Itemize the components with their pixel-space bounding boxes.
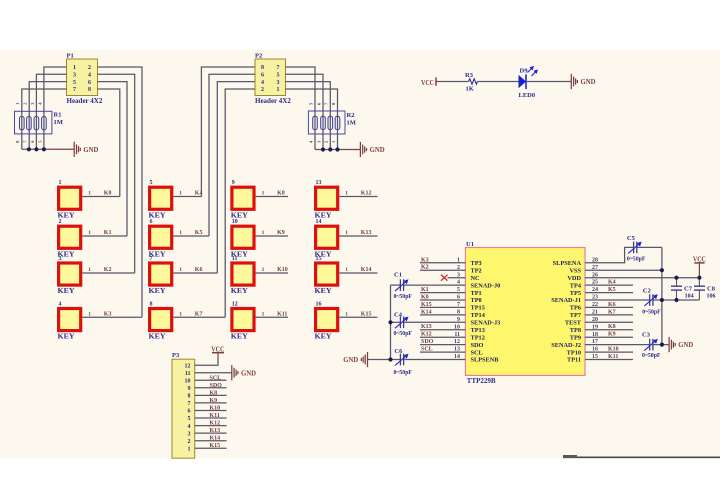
svg-text:C8: C8 <box>707 285 716 292</box>
wire key 4 net K3 <box>82 316 142 318</box>
svg-text:K14: K14 <box>210 436 221 442</box>
wire P1 pin2 to K3 bus <box>98 67 143 317</box>
svg-text:K6: K6 <box>195 267 203 273</box>
ground GND (LED) <box>571 74 577 89</box>
svg-text:TP10: TP10 <box>567 349 581 356</box>
power port VCC (U1) <box>693 254 706 277</box>
svg-text:1: 1 <box>188 446 191 452</box>
svg-text:5: 5 <box>277 73 280 79</box>
svg-text:P1: P1 <box>67 52 74 59</box>
svg-text:Header 4X2: Header 4X2 <box>67 97 103 105</box>
wire key 15 net K14 <box>339 272 377 274</box>
svg-text:GND: GND <box>678 340 694 349</box>
svg-text:TTP229B: TTP229B <box>467 377 496 385</box>
svg-text:K13: K13 <box>361 230 372 236</box>
wire U1 pin5 net K1 <box>420 292 465 294</box>
capacitor C2 plates <box>644 294 658 306</box>
wire U1 pin14 to C6 <box>404 359 466 361</box>
svg-text:VCC: VCC <box>693 254 706 263</box>
svg-text:SENAD-J2: SENAD-J2 <box>551 342 581 349</box>
wire U1 pin8 net K14 <box>420 314 465 316</box>
svg-text:SDO: SDO <box>421 339 434 345</box>
svg-text:K8: K8 <box>210 390 218 396</box>
svg-text:TP11: TP11 <box>567 357 581 364</box>
capacitor C1 plates <box>395 279 409 291</box>
svg-text:1: 1 <box>345 230 348 236</box>
svg-text:1: 1 <box>345 267 348 273</box>
wire C1 to rail <box>391 284 401 286</box>
svg-text:VCC: VCC <box>421 78 434 87</box>
svg-text:K6: K6 <box>608 302 616 308</box>
svg-text:SCL: SCL <box>471 349 483 356</box>
wire P2 pin4 to K6 bus <box>217 82 255 273</box>
svg-text:2: 2 <box>88 65 91 71</box>
svg-text:K2: K2 <box>421 265 429 271</box>
wire U1 pin4 to C1 <box>404 284 466 286</box>
svg-text:4: 4 <box>261 80 264 86</box>
wire C4 to rail <box>391 321 401 323</box>
junction <box>388 357 392 361</box>
capacitor C5 0~50pF <box>627 235 646 262</box>
svg-text:5: 5 <box>188 416 191 422</box>
svg-text:VCC: VCC <box>211 344 224 353</box>
wire U1 pin23 to C2 <box>585 299 650 301</box>
wire key 16 net K15 <box>339 316 377 318</box>
svg-text:6: 6 <box>261 73 264 79</box>
svg-text:GND: GND <box>241 368 257 377</box>
svg-text:K9: K9 <box>608 332 616 338</box>
junction <box>335 147 339 151</box>
svg-text:D9: D9 <box>520 67 529 74</box>
svg-text:K14: K14 <box>421 309 432 315</box>
junction <box>660 343 664 347</box>
IC U1 TTP229B <box>454 241 598 385</box>
wire R2 ground rail <box>315 149 342 151</box>
svg-text:0~50pF: 0~50pF <box>642 353 661 359</box>
svg-text:9: 9 <box>188 386 191 392</box>
wire U1 pin19 net K8 <box>585 329 633 331</box>
svg-text:K4: K4 <box>608 280 616 286</box>
svg-text:K10: K10 <box>608 347 619 353</box>
svg-text:1K: 1K <box>466 86 474 93</box>
svg-text:1: 1 <box>262 230 265 236</box>
svg-text:13: 13 <box>316 180 322 186</box>
capacitor C2 0~50pF <box>642 287 661 315</box>
svg-text:K11: K11 <box>277 311 287 317</box>
svg-text:KEY: KEY <box>231 333 248 341</box>
svg-text:C7: C7 <box>684 285 693 292</box>
wire P2 pin6 to K5 bus <box>209 74 255 236</box>
wire R3 to LED <box>478 81 519 83</box>
svg-text:K8: K8 <box>277 191 285 197</box>
svg-text:1: 1 <box>88 311 91 317</box>
svg-text:Header 4X2: Header 4X2 <box>255 97 291 105</box>
wire C5 to rail <box>637 246 662 248</box>
svg-text:K7: K7 <box>608 309 616 315</box>
wire U1 pin22 net K6 <box>585 306 633 308</box>
svg-text:3: 3 <box>59 256 62 262</box>
svg-text:7: 7 <box>150 256 153 262</box>
svg-text:C6: C6 <box>394 348 403 355</box>
svg-text:10: 10 <box>232 219 238 225</box>
svg-text:NC: NC <box>471 275 481 282</box>
key switch 1 (K0) <box>58 180 92 219</box>
junction <box>660 268 664 272</box>
svg-text:104: 104 <box>685 293 694 299</box>
capacitor C4 plates <box>395 317 409 329</box>
svg-text:K5: K5 <box>608 287 616 293</box>
svg-text:KEY: KEY <box>315 287 332 295</box>
svg-text:7: 7 <box>188 401 191 407</box>
svg-text:1: 1 <box>88 267 91 273</box>
junction <box>27 147 31 151</box>
ground GND (C6) <box>361 352 367 367</box>
key switch 8 (K7) <box>149 301 183 340</box>
svg-text:0~50pF: 0~50pF <box>394 370 413 376</box>
svg-text:4: 4 <box>59 301 62 307</box>
wire U1 pin1 net K3 <box>420 262 465 264</box>
svg-text:K13: K13 <box>421 324 432 330</box>
svg-text:SCL: SCL <box>421 347 433 353</box>
wire C2 to C7 C8 rail <box>653 299 699 301</box>
ground GND (U1) <box>669 337 675 352</box>
svg-text:K15: K15 <box>421 302 432 308</box>
wire P2 pin1 to R2 <box>286 89 338 150</box>
resistor network R1 1M <box>15 102 63 143</box>
junction <box>674 276 678 280</box>
svg-text:R1: R1 <box>54 112 62 119</box>
svg-text:R2: R2 <box>347 112 355 119</box>
wire P2 pin7 to R2 <box>286 67 316 150</box>
svg-text:K3: K3 <box>104 311 112 317</box>
svg-text:K10: K10 <box>210 406 221 412</box>
svg-text:C2: C2 <box>643 287 651 294</box>
svg-text:14: 14 <box>316 219 322 225</box>
wire VCC to R3 <box>442 81 469 83</box>
svg-text:P2: P2 <box>255 52 262 59</box>
ground GND (P3) <box>232 365 238 380</box>
svg-text:4: 4 <box>88 73 91 79</box>
junction <box>674 298 678 302</box>
wire P3 pin11 to GND <box>195 372 232 374</box>
svg-text:K5: K5 <box>195 230 203 236</box>
svg-text:0~50pF: 0~50pF <box>394 294 413 300</box>
svg-text:K9: K9 <box>277 230 285 236</box>
svg-text:SDO: SDO <box>471 342 484 349</box>
svg-text:C4: C4 <box>394 311 403 318</box>
svg-text:SLPSENB: SLPSENB <box>471 357 500 364</box>
wire P1 pin1 to R1 <box>44 67 67 149</box>
key switch 10 (K9) <box>231 219 265 258</box>
svg-text:1: 1 <box>262 267 265 273</box>
svg-text:K14: K14 <box>361 267 372 273</box>
title block border <box>563 456 720 458</box>
svg-text:KEY: KEY <box>231 287 248 295</box>
key switch 7 (K6) <box>149 256 183 295</box>
svg-text:K1: K1 <box>104 230 112 236</box>
wire U1 pin17 to C3 <box>585 344 650 346</box>
capacitor C4 0~50pF <box>394 311 413 337</box>
resistor network R2 1M <box>308 102 355 143</box>
svg-text:0~50pF: 0~50pF <box>642 309 661 315</box>
svg-text:1: 1 <box>179 311 182 317</box>
wire P3 pin7 net K9 <box>195 402 227 404</box>
svg-text:11: 11 <box>232 256 238 262</box>
svg-text:TP8: TP8 <box>570 327 581 334</box>
svg-text:TP6: TP6 <box>570 305 581 312</box>
svg-text:GND: GND <box>581 77 597 86</box>
svg-text:KEY: KEY <box>58 287 75 295</box>
svg-text:K1: K1 <box>421 287 429 293</box>
junction <box>660 298 664 302</box>
svg-text:K12: K12 <box>210 421 221 427</box>
wire key 14 net K13 <box>339 235 377 237</box>
svg-text:TEST: TEST <box>565 320 582 327</box>
svg-text:C5: C5 <box>627 235 636 242</box>
key switch 4 (K3) <box>58 301 92 340</box>
svg-text:K10: K10 <box>277 267 288 273</box>
wire key 12 net K11 <box>256 316 288 318</box>
wire P3 pin1 net K15 <box>195 447 227 449</box>
svg-text:3: 3 <box>277 80 280 86</box>
LED D9 LED0 <box>519 66 539 99</box>
svg-text:7: 7 <box>73 87 76 93</box>
svg-text:1: 1 <box>59 180 62 186</box>
svg-text:TP1: TP1 <box>471 290 482 297</box>
wire U1 pin20 TEST <box>585 321 633 323</box>
svg-text:KEY: KEY <box>149 287 166 295</box>
capacitor C7 104 <box>671 278 694 300</box>
svg-text:1: 1 <box>179 230 182 236</box>
wire U1 pin25 net K4 <box>585 284 633 286</box>
wire P3 pin2 net K14 <box>195 440 227 442</box>
svg-text:1: 1 <box>262 191 265 197</box>
svg-text:K15: K15 <box>361 311 372 317</box>
wire key 8 net K7 <box>173 316 225 318</box>
wire U1 pin28 to C5 <box>585 247 634 262</box>
svg-text:5: 5 <box>73 80 76 86</box>
svg-text:1: 1 <box>345 311 348 317</box>
svg-text:3: 3 <box>73 73 76 79</box>
svg-text:1: 1 <box>179 191 182 197</box>
svg-text:GND: GND <box>83 145 99 154</box>
wire U1 pin21 net K7 <box>585 314 633 316</box>
svg-text:1: 1 <box>73 65 76 71</box>
wire R1 ground rail <box>22 148 50 150</box>
svg-text:2: 2 <box>261 87 264 93</box>
key switch 13 (K12) <box>315 180 349 219</box>
svg-text:1: 1 <box>179 267 182 273</box>
wire U1 pin15 net K11 <box>585 359 633 361</box>
wire LED to GND <box>526 81 571 83</box>
wire key 2 net K1 <box>82 235 127 237</box>
wire key 9 net K8 <box>256 196 288 198</box>
wire P3 pin10 net SCL <box>195 379 227 381</box>
svg-text:K8: K8 <box>608 324 616 330</box>
wire U1 pin26 VDD to VCC <box>585 277 699 279</box>
svg-text:2: 2 <box>188 439 191 445</box>
key switch 15 (K14) <box>315 256 349 295</box>
key switch 6 (K5) <box>149 219 183 258</box>
svg-text:SENAD-J3: SENAD-J3 <box>471 320 501 327</box>
svg-text:KEY: KEY <box>149 333 166 341</box>
svg-text:4: 4 <box>188 424 191 430</box>
svg-text:6: 6 <box>150 219 153 225</box>
wire key 13 net K12 <box>339 196 377 198</box>
ground GND (R2) <box>360 142 366 157</box>
key switch 5 (K4) <box>149 180 183 219</box>
svg-text:GND: GND <box>343 355 359 364</box>
capacitor C3 plates <box>644 339 658 351</box>
wire key 1 net K0 <box>82 196 120 198</box>
svg-text:TP3: TP3 <box>471 260 482 267</box>
junction <box>328 147 332 151</box>
junction <box>697 276 701 280</box>
svg-text:5: 5 <box>150 180 153 186</box>
wire P3 pin5 net K11 <box>195 417 227 419</box>
wire right rail C5 to C3 <box>661 247 663 344</box>
svg-text:K0: K0 <box>421 295 429 301</box>
key switch 3 (K2) <box>58 256 92 295</box>
svg-text:0~50pF: 0~50pF <box>394 331 413 337</box>
svg-text:R3: R3 <box>465 72 474 79</box>
svg-text:12: 12 <box>185 363 191 369</box>
svg-text:K15: K15 <box>210 443 221 449</box>
svg-text:0~50pF: 0~50pF <box>627 256 646 262</box>
svg-text:TP5: TP5 <box>570 290 581 297</box>
svg-text:1: 1 <box>277 87 280 93</box>
svg-text:TP2: TP2 <box>471 267 482 274</box>
wire C3 to GND <box>653 344 669 346</box>
wire P1 pin7 to R1 <box>22 89 67 149</box>
svg-text:6: 6 <box>88 80 91 86</box>
junction <box>388 320 392 324</box>
svg-text:LED0: LED0 <box>519 92 536 99</box>
wire P3 pin12 to VCC <box>195 357 218 365</box>
svg-text:K9: K9 <box>210 398 218 404</box>
svg-text:VDD: VDD <box>567 275 581 282</box>
svg-text:106: 106 <box>707 293 716 299</box>
wire P1 pin8 to K0 bus <box>98 89 120 197</box>
svg-text:K7: K7 <box>195 311 203 317</box>
header P2 <box>255 52 291 105</box>
wire U1 pin12 net SDO <box>420 344 465 346</box>
svg-text:SCL: SCL <box>210 375 222 381</box>
svg-text:KEY: KEY <box>58 333 75 341</box>
svg-text:1: 1 <box>262 311 265 317</box>
svg-text:6: 6 <box>188 409 191 415</box>
capacitor C5 plates <box>628 242 642 254</box>
svg-text:TP13: TP13 <box>471 327 485 334</box>
key switch 11 (K10) <box>231 256 265 295</box>
wire to GND <box>342 149 360 151</box>
svg-text:SDO: SDO <box>210 383 223 389</box>
svg-text:2: 2 <box>59 219 62 225</box>
wire U1 pin3 stub <box>448 277 466 279</box>
ground GND (R1) <box>74 142 80 157</box>
wire P1 pin5 to R1 <box>29 82 66 150</box>
svg-text:C3: C3 <box>642 331 651 338</box>
svg-text:TP0: TP0 <box>471 297 482 304</box>
wire U1 pin24 net K5 <box>585 292 633 294</box>
resistor R3 1K <box>465 72 478 93</box>
wire P3 pin4 net K12 <box>195 425 227 427</box>
capacitor C1 0~50pF <box>394 271 413 300</box>
wire key 5 net K4 <box>173 196 201 198</box>
header P1 <box>67 52 103 105</box>
wire key 11 net K10 <box>256 272 288 274</box>
wire key 3 net K2 <box>82 272 134 274</box>
key switch 12 (K11) <box>231 301 265 340</box>
wire to GND <box>50 148 74 150</box>
svg-text:U1: U1 <box>466 241 474 248</box>
key switch 2 (K1) <box>58 219 92 258</box>
svg-text:11: 11 <box>185 371 191 377</box>
svg-text:SENAD-J0: SENAD-J0 <box>471 282 501 289</box>
wire C6 to GND <box>368 359 401 361</box>
svg-text:SENAD-J1: SENAD-J1 <box>551 297 581 304</box>
wire P2 pin5 to R2 <box>286 74 324 149</box>
svg-text:KEY: KEY <box>315 333 332 341</box>
capacitor C6 0~50pF <box>394 348 413 376</box>
svg-text:9: 9 <box>232 180 235 186</box>
svg-text:K3: K3 <box>421 257 429 263</box>
svg-text:TP12: TP12 <box>471 334 485 341</box>
wire U1 pin9 to C4 <box>404 321 466 323</box>
svg-text:K13: K13 <box>210 428 221 434</box>
svg-text:8: 8 <box>88 87 91 93</box>
svg-text:8: 8 <box>188 394 191 400</box>
wire P2 pin8 to K4 bus <box>201 67 255 197</box>
svg-text:TP14: TP14 <box>471 312 486 319</box>
svg-text:VSS: VSS <box>569 267 581 274</box>
svg-text:TP9: TP9 <box>570 334 581 341</box>
wire U1 pin27 VSS <box>585 269 662 271</box>
wire U1 pin16 net K10 <box>585 351 633 353</box>
svg-text:TP15: TP15 <box>471 305 485 312</box>
power port VCC (P3) <box>211 344 224 357</box>
svg-text:8: 8 <box>150 301 153 307</box>
wire U1 pin11 net K12 <box>420 336 465 338</box>
svg-text:7: 7 <box>277 65 280 71</box>
svg-text:K12: K12 <box>361 191 372 197</box>
wire P1 pin3 to R1 <box>36 74 66 149</box>
wire P3 pin8 net K8 <box>195 394 227 396</box>
svg-text:3: 3 <box>188 431 191 437</box>
wire U1 pin10 net K13 <box>420 329 465 331</box>
svg-text:8: 8 <box>261 65 264 71</box>
wire P3 pin9 net SDO <box>195 387 227 389</box>
junction <box>321 147 325 151</box>
svg-text:1: 1 <box>88 191 91 197</box>
svg-text:K12: K12 <box>421 332 432 338</box>
svg-text:1: 1 <box>88 230 91 236</box>
key switch 16 (K15) <box>315 301 349 340</box>
wire key 10 net K9 <box>256 235 288 237</box>
svg-text:10: 10 <box>185 379 191 385</box>
wire key 6 net K5 <box>173 235 209 237</box>
key switch 14 (K13) <box>315 219 349 258</box>
wire P2 pin2 to K7 bus <box>225 89 255 317</box>
capacitor C6 plates <box>395 354 409 366</box>
wire C1-C4-C6 rail <box>390 285 392 359</box>
wire P1 pin4 to K2 bus <box>98 74 135 273</box>
wire key 7 net K6 <box>173 272 217 274</box>
key switch 9 (K8) <box>231 180 265 219</box>
junction <box>34 147 38 151</box>
svg-text:1M: 1M <box>54 119 63 126</box>
svg-text:K11: K11 <box>210 413 220 419</box>
